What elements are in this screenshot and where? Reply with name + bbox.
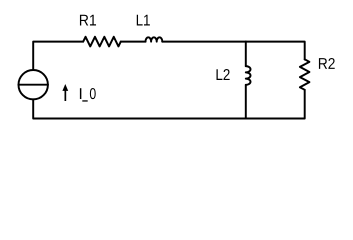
wire L2 bottom to node B	[245, 85, 247, 119]
resistor R2	[300, 59, 310, 90]
current source I1 circle	[19, 70, 48, 99]
wire node B to current source bottom	[33, 99, 246, 118]
wire from current source top to R1 left	[33, 42, 83, 70]
label R2	[319, 58, 335, 69]
label R1	[80, 15, 96, 26]
wire L1 to node A (top junction)	[162, 41, 246, 43]
inductor L2	[246, 66, 251, 85]
label L1	[137, 15, 150, 26]
label L2	[217, 69, 230, 80]
wire R2 bottom to node B (bottom junction)	[246, 90, 305, 119]
wire node A to R2 top	[246, 42, 305, 60]
label I_0	[80, 88, 96, 102]
inductor L1	[146, 37, 163, 41]
wire node A to L2 top	[245, 42, 247, 67]
resistor R1	[83, 37, 121, 47]
current source I1 bar	[19, 84, 48, 86]
current direction arrow	[62, 84, 68, 101]
wire R1 to L1	[121, 41, 146, 43]
